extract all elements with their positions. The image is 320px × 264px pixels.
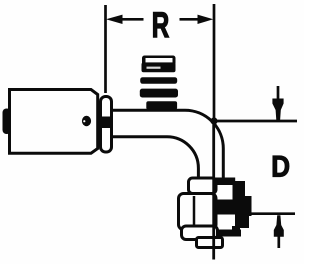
nut bottom flange [182,226,218,240]
extension line right (R datum / centerline upper) [213,4,216,121]
svg-text:D: D [271,150,290,183]
svg-text:R: R [152,6,170,45]
nut facet line [193,196,196,227]
service port cap [142,56,176,66]
swivel nut body [179,194,217,230]
dimension D arrow-up stem [277,236,280,248]
dimension D arrowhead down [272,99,283,121]
shell crimp collar [101,97,112,153]
extension line left (R datum) [104,5,107,93]
dimension D line top [214,120,297,123]
nose pilot [197,238,223,248]
service port rib 3 [140,89,178,98]
swivel nut top collar [189,178,217,194]
shell witness dimple [82,116,91,126]
dimension D arrowhead up [274,215,284,237]
dimension D line bottom [250,212,295,215]
dimension D arrow-down stem [277,86,280,103]
shell end-cap bump [3,109,12,135]
o-ring end silhouette [209,178,252,237]
service port rib 1 [142,63,176,73]
elbow tube inner wall [111,137,198,193]
dimension R leader left [118,18,144,21]
elbow tube outer wall [111,110,223,181]
centerline lower [212,121,215,260]
dimension R arrowhead right [198,15,214,24]
service port base [146,101,177,109]
dimension R leader right [180,18,203,21]
junction dot on centerline [210,117,217,124]
crimp shell body [10,90,98,154]
dimension R arrowhead left [106,15,123,24]
service port rib 2 [140,77,177,84]
